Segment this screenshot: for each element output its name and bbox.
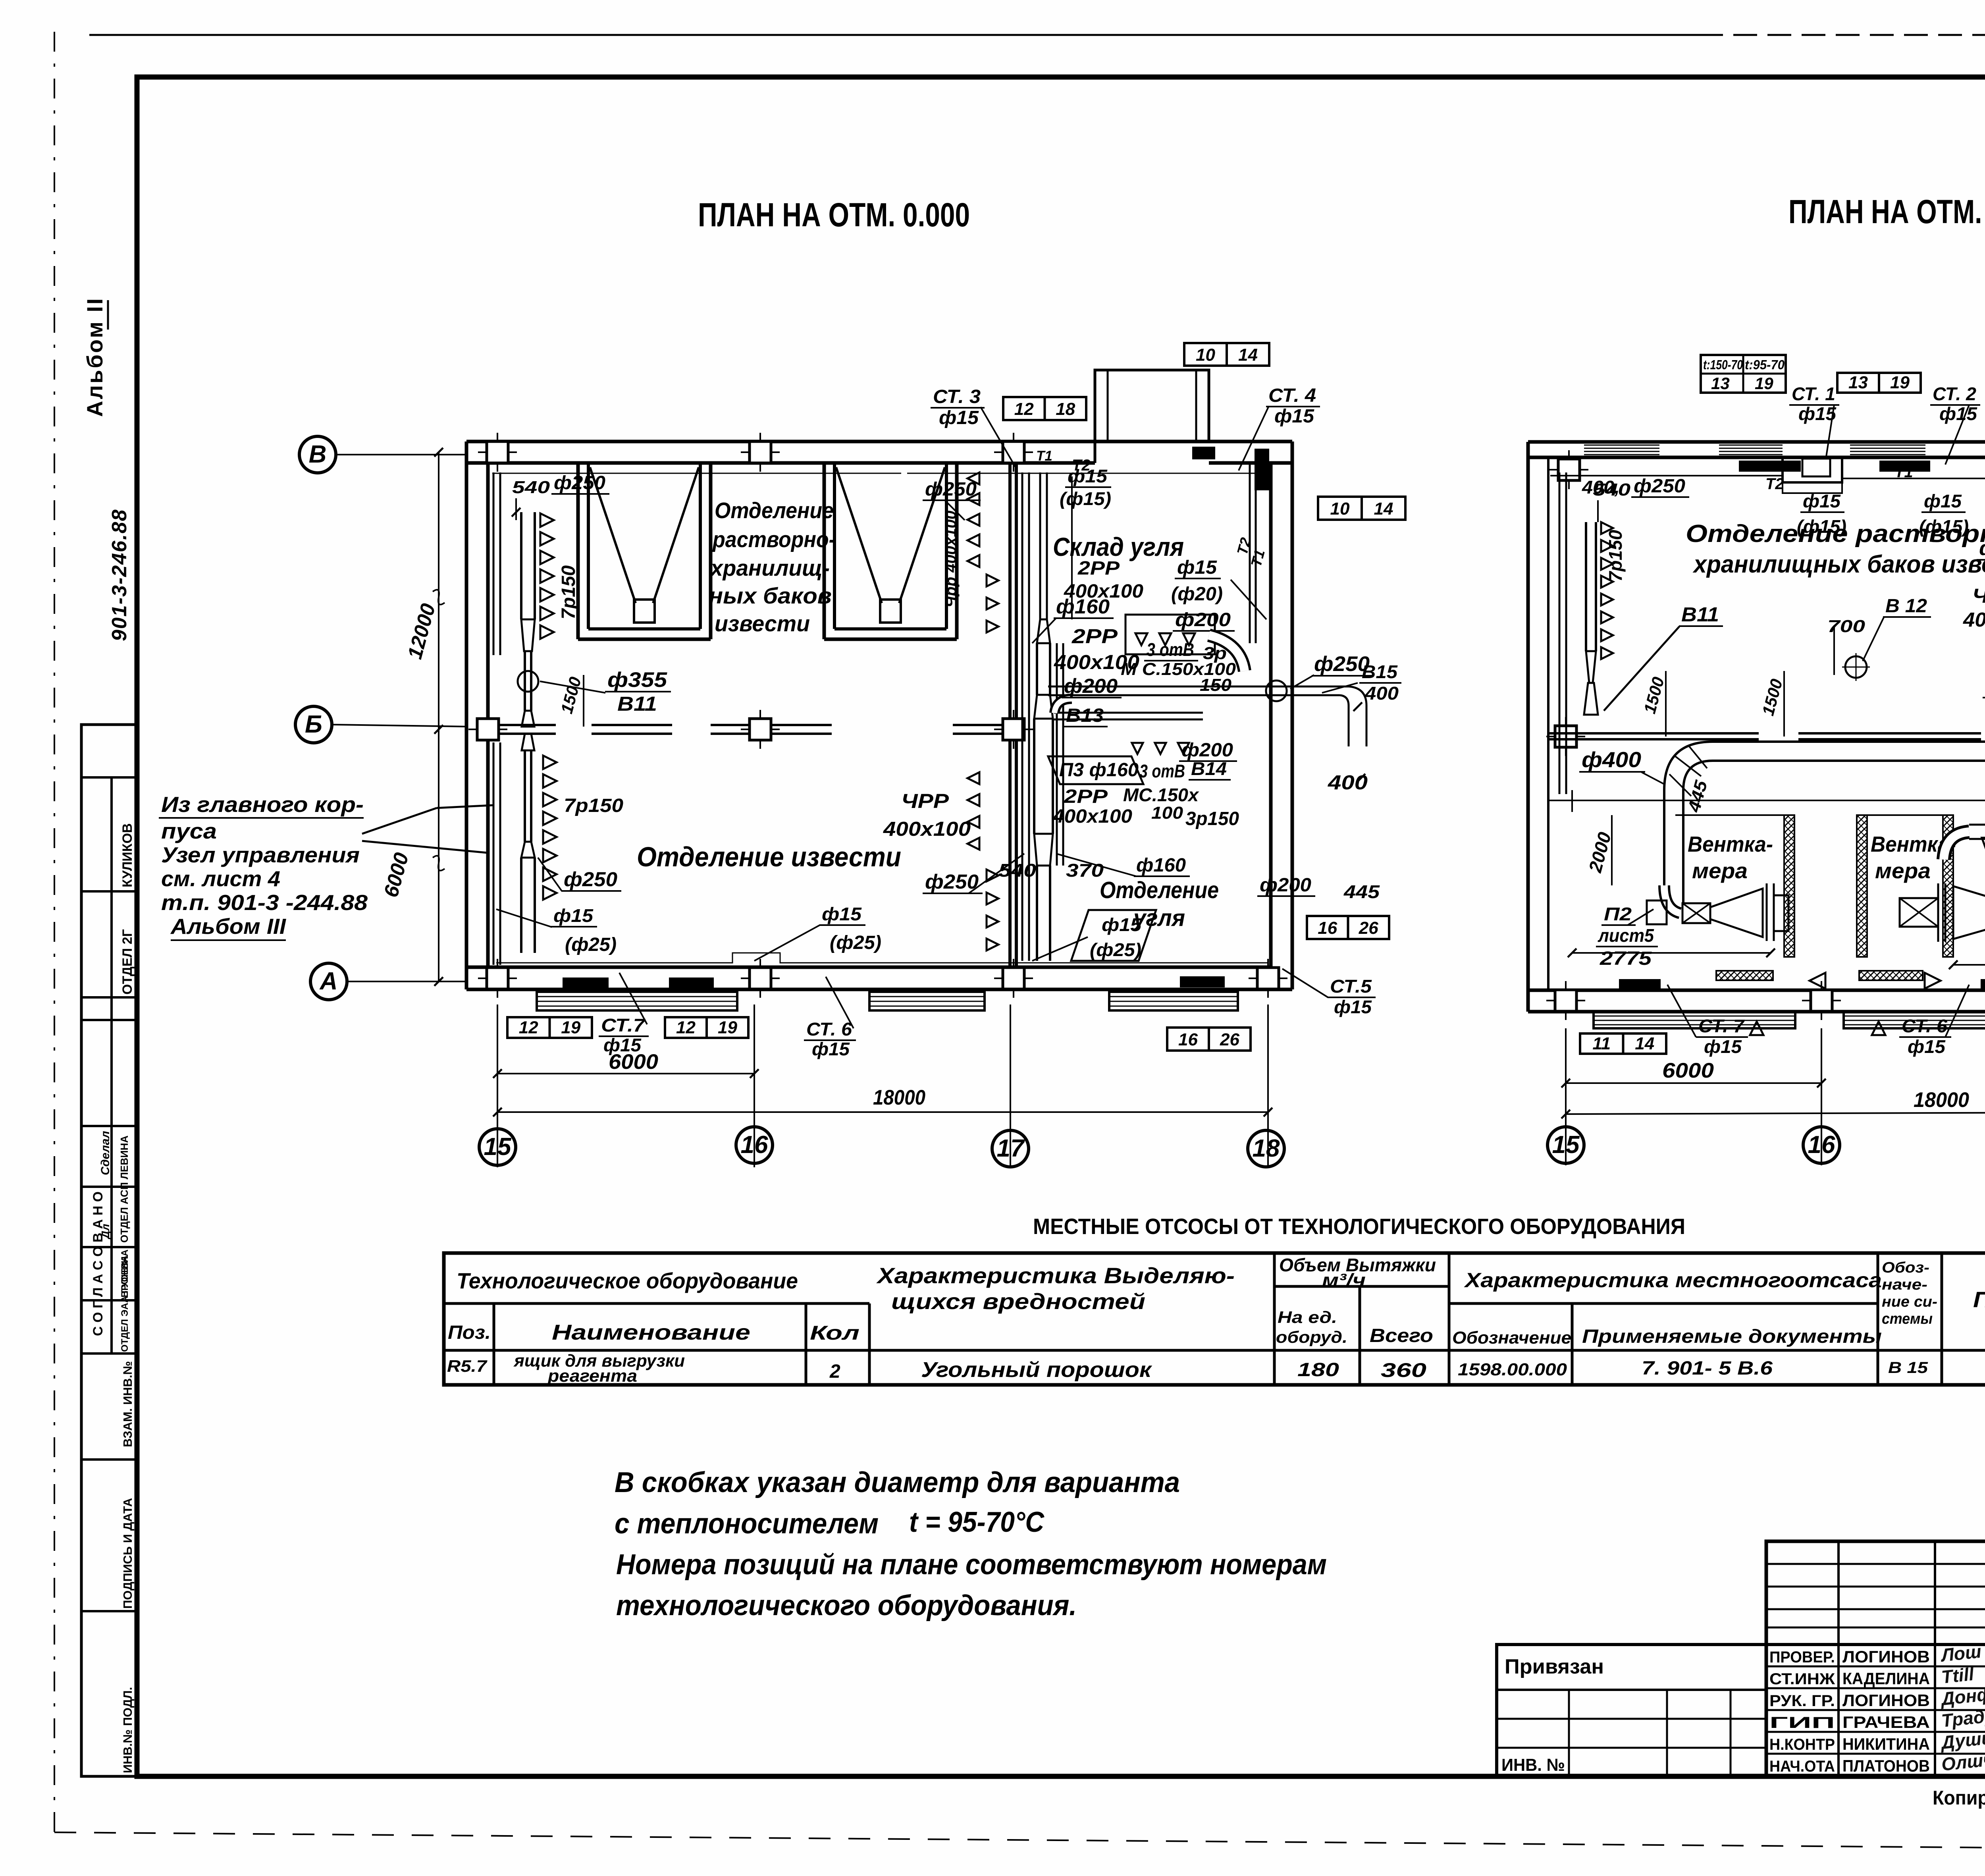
svg-text:19: 19 bbox=[1890, 373, 1910, 392]
svg-text:Всего: Всего bbox=[1370, 1325, 1433, 1346]
leader from main building text bbox=[362, 808, 437, 834]
door triangles bottom bbox=[1810, 973, 1825, 989]
extra duct lines on dividing wall bbox=[1056, 643, 1058, 866]
svg-text:В 12: В 12 bbox=[1885, 596, 1927, 617]
dim 1500 vertical bbox=[583, 675, 584, 727]
svg-text:13: 13 bbox=[1848, 373, 1868, 392]
svg-text:т.п. 901-3 -244.88: т.п. 901-3 -244.88 bbox=[161, 890, 368, 915]
svg-text:ф200: ф200 bbox=[1260, 875, 1311, 896]
vent chamber top lines bbox=[1675, 814, 1784, 816]
svg-text:26: 26 bbox=[1359, 918, 1378, 938]
svg-text:С О Г Л А С О В А Н О: С О Г Л А С О В А Н О bbox=[91, 1192, 106, 1336]
svg-text:10: 10 bbox=[1196, 345, 1215, 364]
svg-text:Чрр 400х100: Чрр 400х100 bbox=[942, 511, 960, 607]
svg-text:ф250: ф250 bbox=[1634, 476, 1685, 497]
svg-text:лист5: лист5 bbox=[1598, 925, 1654, 946]
fan П2 bbox=[1664, 885, 1680, 913]
svg-text:ф15: ф15 bbox=[603, 1035, 642, 1055]
svg-text:П2: П2 bbox=[1604, 904, 1632, 924]
svg-text:В11: В11 bbox=[617, 692, 657, 715]
svg-text:360: 360 bbox=[1381, 1359, 1426, 1381]
svg-text:540: 540 bbox=[998, 860, 1037, 881]
svg-text:Характеристика местногоотсаса: Характеристика местногоотсаса bbox=[1464, 1269, 1882, 1292]
bottom wall aprons bbox=[1594, 1012, 1795, 1028]
svg-text:15: 15 bbox=[484, 1133, 512, 1161]
right plan bottom wall bbox=[1528, 989, 1985, 992]
svg-text:Обоз-: Обоз- bbox=[1882, 1259, 1929, 1276]
svg-text:ЛОГИНОВ: ЛОГИНОВ bbox=[1842, 1691, 1930, 1710]
svg-text:16: 16 bbox=[1318, 918, 1337, 938]
svg-text:150: 150 bbox=[1200, 675, 1232, 695]
svg-text:1598.00.000: 1598.00.000 bbox=[1458, 1360, 1567, 1379]
svg-text:стемы: стемы bbox=[1882, 1311, 1933, 1327]
svg-text:пуса: пуса bbox=[161, 819, 217, 843]
svg-text:ф15: ф15 bbox=[1102, 914, 1142, 935]
svg-text:Лош: Лош bbox=[1939, 1641, 1983, 1666]
svg-text:Из главного кор-: Из главного кор- bbox=[161, 792, 364, 817]
svg-text:Отделение: Отделение bbox=[1100, 877, 1219, 903]
svg-text:технологического оборудования: технологического оборудования. bbox=[616, 1590, 1077, 1621]
right plan left wall bbox=[1526, 442, 1530, 1012]
svg-text:(ф15): (ф15) bbox=[1919, 516, 1969, 537]
svg-text:ф15: ф15 bbox=[939, 407, 979, 428]
left plan top wall bbox=[466, 440, 1292, 443]
svg-text:ИНВ. №: ИНВ. № bbox=[1501, 1755, 1565, 1775]
svg-text:ЛОГИНОВ: ЛОГИНОВ bbox=[1842, 1647, 1930, 1666]
svg-text:2РР: 2РР bbox=[1077, 558, 1120, 579]
triangles left of wall upper (4pp) bbox=[967, 472, 979, 484]
svg-text:КАДЕЛИНА: КАДЕЛИНА bbox=[1842, 1669, 1930, 1688]
svg-text:445: 445 bbox=[1343, 881, 1380, 902]
svg-text:СТ.7: СТ.7 bbox=[601, 1015, 646, 1035]
partition axis Б segments bbox=[1548, 732, 1759, 735]
partition segments axis Б bbox=[488, 724, 556, 726]
svg-text:ОТДЕЛ ЭАА ГУСЕВА: ОТДЕЛ ЭАА ГУСЕВА bbox=[119, 1255, 130, 1352]
outer cut dashed border bottom bbox=[54, 1832, 1985, 1850]
dim 2775 line bbox=[1572, 952, 1771, 954]
svg-text:оборуд.: оборуд. bbox=[1276, 1328, 1347, 1346]
svg-text:(ф15): (ф15) bbox=[1797, 516, 1846, 537]
svg-text:ф15: ф15 bbox=[1939, 403, 1977, 424]
svg-text:м³/ч: м³/ч bbox=[1322, 1270, 1366, 1290]
svg-text:18000: 18000 bbox=[1914, 1088, 1969, 1112]
triangles on dividing wall upper bbox=[987, 575, 998, 586]
svg-text:ф15: ф15 bbox=[1274, 406, 1314, 427]
svg-text:ф250: ф250 bbox=[564, 868, 617, 891]
700 dim B12 bbox=[1833, 625, 1835, 675]
svg-text:10: 10 bbox=[1330, 499, 1350, 519]
svg-text:14: 14 bbox=[1238, 345, 1258, 364]
svg-text:А: А bbox=[319, 968, 338, 995]
svg-text:ПЛАН НА ОТМ. 0.000: ПЛАН НА ОТМ. 0.000 bbox=[698, 196, 970, 233]
svg-text:12: 12 bbox=[676, 1018, 696, 1037]
svg-text:ние си-: ние си- bbox=[1882, 1294, 1937, 1310]
svg-text:ф15: ф15 bbox=[553, 905, 594, 926]
svg-text:КУЛИКОВ: КУЛИКОВ bbox=[120, 823, 135, 888]
svg-text:3 отВ: 3 отВ bbox=[1139, 761, 1185, 781]
svg-text:(ф25): (ф25) bbox=[565, 934, 617, 955]
svg-text:(ф25): (ф25) bbox=[830, 932, 881, 953]
П3 parallelogram bbox=[1048, 756, 1143, 784]
svg-text:ф200: ф200 bbox=[1064, 675, 1118, 697]
left stamp boxes bbox=[1497, 1645, 1766, 1776]
svg-text:СТ. 6: СТ. 6 bbox=[806, 1019, 852, 1039]
svg-text:хранилищ-: хранилищ- bbox=[709, 555, 830, 581]
axis circle 18 bbox=[1248, 1130, 1284, 1167]
svg-text:7. 901- 5 В.6: 7. 901- 5 В.6 bbox=[1642, 1358, 1773, 1379]
svg-text:Наименование: Наименование bbox=[552, 1321, 750, 1344]
svg-text:400: 400 bbox=[1328, 771, 1368, 794]
top wall jog at СТ.1 bbox=[1783, 457, 1842, 482]
svg-text:Б: Б bbox=[305, 711, 322, 738]
svg-text:В11: В11 bbox=[1681, 603, 1719, 626]
svg-text:18000: 18000 bbox=[873, 1086, 925, 1109]
svg-text:400,: 400, bbox=[1582, 477, 1620, 497]
svg-text:Альбом II: Альбом II bbox=[82, 297, 107, 417]
svg-text:2: 2 bbox=[829, 1361, 840, 1382]
svg-text:400 х100: 400 х100 bbox=[1963, 608, 1985, 631]
svg-text:П3 ф160: П3 ф160 bbox=[1059, 760, 1139, 781]
svg-text:(ф15): (ф15) bbox=[1060, 488, 1111, 509]
svg-text:мера: мера bbox=[1692, 858, 1748, 883]
svg-text:901-3-246.88: 901-3-246.88 bbox=[108, 509, 131, 641]
svg-text:Тtill: Тtill bbox=[1941, 1664, 1975, 1687]
svg-text:ГРАЧЕВА: ГРАЧЕВА bbox=[1842, 1713, 1930, 1731]
svg-text:ИНВ.№ ПОДЛ.: ИНВ.№ ПОДЛ. bbox=[121, 1687, 135, 1773]
svg-text:В скобках указан диаметр д: В скобках указан диаметр для варианта bbox=[615, 1467, 1180, 1498]
svg-text:11: 11 bbox=[1592, 1034, 1611, 1053]
svg-text:700: 700 bbox=[1827, 617, 1866, 636]
svg-text:Характеристика Выделяю-: Характеристика Выделяю- bbox=[876, 1263, 1235, 1288]
svg-text:400х100: 400х100 bbox=[1052, 806, 1132, 827]
svg-text:НИКИТИНА: НИКИТИНА bbox=[1842, 1735, 1930, 1753]
svg-text:ф15: ф15 bbox=[1908, 1036, 1946, 1057]
boxed label f15(f25) mid-right bbox=[1071, 910, 1156, 961]
svg-text:16: 16 bbox=[741, 1131, 768, 1159]
svg-text:180: 180 bbox=[1297, 1359, 1339, 1380]
svg-text:ф15: ф15 bbox=[1704, 1036, 1742, 1057]
svg-text:(ф25): (ф25) bbox=[1090, 939, 1141, 960]
bottom dim lines left plan bbox=[497, 1005, 498, 1167]
thin heating pipe bottom with jog bbox=[496, 953, 1268, 963]
svg-text:26: 26 bbox=[1220, 1030, 1239, 1049]
thin heating pipe T1 with jog bbox=[1550, 476, 1985, 493]
svg-text:370: 370 bbox=[1066, 860, 1104, 881]
svg-text:3р: 3р bbox=[1203, 644, 1227, 663]
svg-text:СТ. 4: СТ. 4 bbox=[1268, 385, 1316, 406]
svg-text:19: 19 bbox=[561, 1018, 580, 1037]
svg-text:Номера позиций на плане соо: Номера позиций на плане соответствуют но… bbox=[616, 1549, 1327, 1581]
svg-text:ГИП: ГИП bbox=[1769, 1714, 1835, 1731]
svg-text:СТ. 1: СТ. 1 bbox=[1792, 384, 1835, 404]
equipment table bbox=[444, 1253, 1985, 1385]
svg-text:19: 19 bbox=[1755, 374, 1773, 393]
svg-text:СТ. 6: СТ. 6 bbox=[1902, 1016, 1947, 1036]
svg-text:ПЛАН НА ОТМ. 4. 200: ПЛАН НА ОТМ. 4. 200 bbox=[1788, 193, 1985, 230]
axis circle 15 bbox=[479, 1129, 516, 1165]
svg-text:ф15: ф15 bbox=[1068, 466, 1108, 486]
axis circle В left bbox=[299, 436, 336, 473]
central duct risers on dividing wall bbox=[1021, 472, 1023, 961]
svg-text:Поз.: Поз. bbox=[448, 1322, 491, 1343]
svg-text:ОТДЕЛ АСП ЛЕВИНА: ОТДЕЛ АСП ЛЕВИНА bbox=[118, 1136, 130, 1243]
svg-text:см. лист 4: см. лист 4 bbox=[161, 866, 280, 891]
svg-text:В 15: В 15 bbox=[1888, 1359, 1928, 1377]
svg-text:мера: мера bbox=[1875, 858, 1931, 883]
svg-text:Альбом III: Альбом III bbox=[170, 914, 287, 939]
svg-text:СТ.5: СТ.5 bbox=[1330, 976, 1372, 997]
svg-text:7р150: 7р150 bbox=[1605, 530, 1626, 582]
svg-text:Т2: Т2 bbox=[1765, 475, 1784, 493]
title block bbox=[1766, 1541, 1985, 1776]
svg-text:растворно-: растворно- bbox=[712, 527, 836, 552]
svg-text:16: 16 bbox=[1808, 1131, 1835, 1159]
vent chamber hatched walls bbox=[1784, 815, 1794, 957]
svg-text:Привязан: Привязан bbox=[1505, 1655, 1604, 1678]
axis circle Б left bbox=[295, 706, 332, 743]
right plan bottom dims bbox=[1565, 1028, 1567, 1165]
lower short pipes bbox=[1054, 712, 1203, 714]
svg-text:Дл: Дл bbox=[99, 1224, 112, 1240]
flags right plan bbox=[1837, 373, 1921, 393]
svg-text:t = 95-70°С: t = 95-70°С bbox=[909, 1506, 1045, 1538]
axis circle 17 bbox=[992, 1130, 1029, 1167]
svg-text:R5.7: R5.7 bbox=[447, 1357, 488, 1375]
svg-text:12: 12 bbox=[519, 1018, 538, 1037]
left plan right wall bbox=[1291, 442, 1294, 989]
3 small triangles row lower bbox=[1132, 743, 1143, 754]
svg-text:13: 13 bbox=[1711, 374, 1730, 393]
svg-text:12: 12 bbox=[1014, 399, 1034, 419]
elbow down at right bbox=[1349, 686, 1366, 746]
svg-text:ф250: ф250 bbox=[925, 870, 979, 893]
f250 flag label bbox=[1982, 838, 1985, 860]
central pipe cluster bbox=[1125, 615, 1215, 654]
svg-text:3 отВ: 3 отВ bbox=[1147, 639, 1194, 660]
svg-text:14: 14 bbox=[1635, 1034, 1654, 1053]
svg-text:2РР: 2РР bbox=[1064, 786, 1108, 807]
svg-text:ф15: ф15 bbox=[1334, 997, 1372, 1017]
left axis dim line 12000/6000 bbox=[438, 452, 439, 981]
window black bars bottom wall bbox=[563, 978, 609, 989]
left plan left wall bbox=[465, 442, 468, 989]
svg-text:ВЗАМ. ИНВ.№: ВЗАМ. ИНВ.№ bbox=[121, 1361, 135, 1447]
svg-text:18: 18 bbox=[1056, 399, 1075, 419]
svg-text:15: 15 bbox=[1552, 1131, 1580, 1159]
svg-text:реагента: реагента bbox=[547, 1366, 637, 1386]
svg-text:ПРОВЕР.: ПРОВЕР. bbox=[1769, 1648, 1835, 1666]
flags left plan bbox=[1184, 343, 1269, 366]
sheet top trim line bbox=[89, 34, 1699, 36]
svg-text:ф250: ф250 bbox=[1979, 537, 1985, 559]
svg-text:7р150: 7р150 bbox=[558, 565, 579, 619]
svg-text:Применяемые документы: Применяемые документы bbox=[1582, 1326, 1882, 1347]
svg-text:Кол: Кол bbox=[810, 1322, 860, 1344]
apron strips below bottom wall bbox=[537, 992, 737, 1010]
svg-text:ф200: ф200 bbox=[1175, 609, 1231, 630]
svg-text:Угольный порошок: Угольный порошок bbox=[921, 1358, 1152, 1382]
svg-text:Технологическое оборудование: Технологическое оборудование bbox=[457, 1268, 798, 1293]
thick elbow pipe bbox=[1209, 635, 1245, 671]
duct assembly left riser (right plan) bbox=[1559, 472, 1561, 794]
svg-text:хранилищных баков известu: хранилищных баков известu bbox=[1692, 551, 1985, 578]
svg-text:В: В bbox=[309, 441, 327, 468]
black bars top wall right bbox=[1192, 447, 1215, 459]
svg-text:100: 100 bbox=[1151, 803, 1183, 823]
pipe pair coal store right bbox=[1249, 463, 1251, 643]
svg-text:На ед.: На ед. bbox=[1278, 1308, 1337, 1327]
svg-text:t:95-70: t:95-70 bbox=[1745, 357, 1785, 372]
svg-text:Сделал: Сделал bbox=[99, 1131, 112, 1175]
outer cut dashed border left bbox=[54, 32, 55, 1832]
svg-text:Обозначение: Обозначение bbox=[1452, 1328, 1571, 1348]
svg-text:t:150-70: t:150-70 bbox=[1703, 357, 1743, 372]
svg-text:2РР: 2РР bbox=[1072, 625, 1118, 648]
svg-text:400х100: 400х100 bbox=[1064, 581, 1143, 602]
duct assembly A (upper-left riser) bbox=[493, 472, 495, 655]
left plan tambour (top protrusion) bbox=[1095, 370, 1209, 442]
svg-text:400х100: 400х100 bbox=[883, 817, 971, 840]
svg-text:щихся вредностей: щихся вредностей bbox=[891, 1289, 1145, 1314]
svg-text:ф15: ф15 bbox=[1177, 557, 1217, 578]
svg-text:ПЛАТОНОВ: ПЛАТОНОВ bbox=[1842, 1756, 1930, 1775]
svg-text:СТ. 3: СТ. 3 bbox=[933, 386, 981, 407]
right plan top wall with windows bbox=[1528, 440, 1985, 444]
columns right plan bbox=[1558, 459, 1580, 480]
svg-text:РУК. ГР.: РУК. ГР. bbox=[1769, 1692, 1835, 1710]
svg-text:ЧРР: ЧРР bbox=[901, 790, 949, 812]
svg-text:Н.КОНТР: Н.КОНТР bbox=[1769, 1736, 1835, 1753]
svg-text:14: 14 bbox=[1374, 499, 1393, 519]
svg-text:ф200: ф200 bbox=[1181, 740, 1233, 761]
svg-text:ф160: ф160 bbox=[1136, 855, 1186, 876]
svg-text:В13: В13 bbox=[1066, 705, 1104, 726]
svg-text:Копировал: Каршунова: Копировал: Каршунова bbox=[1933, 1787, 1985, 1809]
svg-text:СТ. 7: СТ. 7 bbox=[1698, 1016, 1745, 1036]
svg-text:7р150: 7р150 bbox=[564, 795, 623, 816]
svg-text:ПОДПИСЬ И ДАТА: ПОДПИСЬ И ДАТА bbox=[121, 1498, 135, 1609]
B12 circle bbox=[1845, 656, 1867, 678]
svg-text:СТ.ИНЖ: СТ.ИНЖ bbox=[1769, 1670, 1835, 1688]
svg-text:19: 19 bbox=[718, 1018, 737, 1037]
svg-text:ф15: ф15 bbox=[1924, 491, 1962, 511]
svg-text:(ф20): (ф20) bbox=[1171, 584, 1223, 605]
svg-text:наче-: наче- bbox=[1882, 1276, 1927, 1293]
svg-text:МЕСТНЫЕ ОТСОСЫ ОТ ТЕХНОЛОГИЧ: МЕСТНЫЕ ОТСОСЫ ОТ ТЕХНОЛОГИЧЕСКОГО ОБОРУ… bbox=[1033, 1214, 1685, 1239]
svg-text:ф400: ф400 bbox=[1582, 747, 1641, 772]
hopper tank 2 bbox=[823, 464, 826, 639]
svg-text:17: 17 bbox=[997, 1135, 1025, 1162]
svg-text:6000: 6000 bbox=[1662, 1059, 1714, 1082]
svg-text:НАЧ.ОТА: НАЧ.ОТА bbox=[1769, 1758, 1835, 1775]
svg-text:В15: В15 bbox=[1362, 661, 1398, 682]
svg-text:2775: 2775 bbox=[1600, 948, 1652, 969]
svg-text:3р150: 3р150 bbox=[1185, 808, 1239, 829]
columns left plan bbox=[487, 442, 508, 463]
left plan bottom wall bbox=[466, 966, 1271, 969]
svg-text:ф250: ф250 bbox=[1314, 652, 1370, 676]
big duct f400 bbox=[1664, 742, 1985, 905]
1500 dims bbox=[1665, 671, 1667, 737]
svg-text:18: 18 bbox=[1253, 1135, 1280, 1162]
horizontal pipe to right wall bbox=[1048, 686, 1349, 688]
svg-text:ф355: ф355 bbox=[607, 668, 668, 692]
axis circle А left bbox=[310, 963, 347, 1000]
black bars top wall bbox=[1739, 461, 1801, 472]
svg-text:Отделение извести: Отделение извести bbox=[637, 841, 901, 872]
axis circle 16 bbox=[736, 1127, 773, 1163]
window black bars bottom bbox=[1619, 979, 1661, 990]
svg-text:Примечание: Примечание bbox=[1973, 1287, 1985, 1312]
interior dividing wall bbox=[1008, 463, 1012, 967]
f250 elbow into chamber2 bbox=[1944, 832, 1969, 860]
svg-text:Чрр: Чрр bbox=[1972, 584, 1985, 607]
svg-text:400: 400 bbox=[1364, 683, 1399, 704]
svg-text:Т1: Т1 bbox=[1036, 448, 1052, 464]
svg-text:Отделение: Отделение bbox=[715, 498, 834, 523]
svg-text:МС.150х: МС.150х bbox=[1123, 785, 1199, 805]
duct assembly B (lower-left riser) bbox=[493, 742, 495, 965]
thin heating pipe top bbox=[492, 473, 901, 474]
svg-text:ных баков: ных баков bbox=[709, 583, 832, 609]
svg-text:Узел управления: Узел управления bbox=[161, 843, 360, 867]
svg-text:ф15: ф15 bbox=[822, 904, 862, 924]
svg-text:ф250: ф250 bbox=[554, 472, 605, 494]
triangles on dividing wall lower bbox=[987, 870, 998, 881]
hopper tank 1 bbox=[576, 464, 580, 639]
svg-text:540: 540 bbox=[512, 478, 550, 497]
svg-text:с теплоносителем: с теплоносителем bbox=[615, 1508, 879, 1540]
svg-text:16: 16 bbox=[1178, 1030, 1198, 1049]
svg-text:ОТДЕЛ 2Г: ОТДЕЛ 2Г bbox=[120, 929, 135, 995]
svg-text:извести: извести bbox=[715, 611, 810, 636]
svg-text:Вентка-: Вентка- bbox=[1688, 832, 1773, 856]
svg-text:СТ. 2: СТ. 2 bbox=[1933, 384, 1976, 404]
axis circle 16 right bbox=[1803, 1127, 1840, 1163]
flag with t values bbox=[1701, 355, 1786, 393]
axis circle 15 right bbox=[1548, 1127, 1584, 1163]
svg-text:ф15: ф15 bbox=[812, 1039, 850, 1059]
long thin line below Б bbox=[1548, 800, 1985, 801]
svg-text:ф250: ф250 bbox=[925, 479, 977, 500]
left margin attribute table bbox=[81, 725, 138, 1776]
